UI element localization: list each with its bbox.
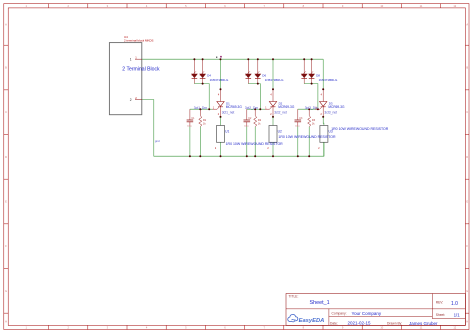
terminal pin 2	[135, 99, 142, 101]
svg-text:U1: U1	[225, 130, 229, 134]
node diode top 3.2	[311, 58, 313, 60]
terminal block U4	[109, 43, 141, 115]
svg-text:1: 1	[130, 58, 132, 62]
diode D4 half 2	[202, 59, 204, 74]
svg-text:1/1: 1/1	[454, 312, 461, 317]
SCR D3 MCR69-3G	[322, 89, 324, 101]
node SCR cathode ch1	[220, 116, 222, 118]
svg-text:Sheet:: Sheet:	[436, 313, 446, 317]
svg-text:2 terminal block MKDS: 2 terminal block MKDS	[124, 38, 153, 42]
svg-text:1R0 10W WIREWOUND RESISTOR: 1R0 10W WIREWOUND RESISTOR	[278, 135, 336, 139]
wire gate ch1	[190, 108, 209, 110]
wire top bus	[142, 58, 323, 60]
node diode top 1.2	[202, 58, 204, 60]
capacitor C1	[189, 109, 191, 120]
svg-text:Date:: Date:	[330, 321, 338, 325]
node diode top 2.2	[257, 58, 259, 60]
svg-text:gnd: gnd	[155, 139, 160, 143]
resistor R2	[254, 109, 256, 115]
node diode top 3.1	[303, 58, 305, 60]
svg-text:Sheet_1: Sheet_1	[310, 300, 330, 306]
wire top to SCR ch3	[322, 59, 324, 89]
wire gate ch2	[247, 108, 260, 110]
node join ch3	[311, 83, 313, 85]
node rail res ch3	[308, 155, 310, 157]
svg-text:3ct1_Drn: 3ct1_Drn	[194, 106, 208, 110]
wire U1 to rail	[220, 142, 222, 156]
node rail box ch1	[220, 155, 222, 157]
svg-text:2021-02-15: 2021-02-15	[348, 321, 372, 326]
svg-text:3ct3_net: 3ct3_net	[324, 110, 337, 114]
wire top to SCR ch2	[272, 59, 274, 89]
svg-text:H: H	[5, 319, 7, 323]
svg-text:TITLE:: TITLE:	[289, 294, 299, 298]
svg-text:D6: D6	[262, 73, 266, 77]
title block	[286, 294, 465, 326]
svg-text:Drawn By:: Drawn By:	[387, 321, 402, 325]
node diode top 2.1	[247, 58, 249, 60]
node gate junction ch2	[259, 108, 261, 110]
wire diode join ch3	[304, 84, 318, 110]
diode D6 half 2	[257, 59, 259, 74]
wire res to rail ch2	[254, 127, 256, 156]
wire res to rail ch3	[308, 127, 310, 156]
wirewound resistor U1	[217, 126, 225, 143]
svg-text:A: A	[466, 22, 468, 26]
svg-text:2: 2	[130, 98, 132, 102]
node resistor top ch2	[254, 108, 256, 110]
EasyEDA logo	[288, 314, 298, 321]
node join ch1	[202, 83, 204, 85]
wirewound resistor U2	[269, 126, 277, 143]
svg-text:REV:: REV:	[436, 300, 444, 304]
svg-text:MCR69-3G: MCR69-3G	[278, 105, 295, 109]
svg-text:H: H	[466, 319, 468, 323]
svg-text:Your Company: Your Company	[352, 311, 382, 316]
node rail cap ch1	[189, 155, 191, 157]
svg-text:D4: D4	[207, 73, 211, 77]
node rail res ch1	[199, 155, 201, 157]
diode D4 half 1	[193, 59, 195, 74]
SCR D2 MCR69-3G	[272, 89, 274, 101]
wire diode join ch1	[194, 84, 209, 110]
svg-text:D8: D8	[316, 73, 320, 77]
wire gate ch3	[298, 108, 318, 110]
terminal pin 1	[135, 58, 142, 60]
svg-text:E: E	[466, 200, 468, 204]
node rail res ch2	[254, 155, 256, 157]
node gate junction ch1	[208, 108, 210, 110]
node gate junction ch3	[317, 108, 319, 110]
wire pin2 to ground rail	[142, 100, 324, 157]
diode D8 half 1	[303, 59, 305, 74]
svg-text:B: B	[5, 66, 7, 70]
node SCR anode pin ch2	[272, 88, 274, 90]
svg-text:1.0: 1.0	[451, 301, 458, 307]
resistor R1	[199, 109, 201, 115]
svg-text:MCR69-3G: MCR69-3G	[226, 105, 243, 109]
svg-text:1R0 10W WIREWOUND RESISTOR: 1R0 10W WIREWOUND RESISTOR	[331, 127, 389, 131]
svg-text:1N5371BRLG: 1N5371BRLG	[319, 78, 338, 82]
capacitor C3	[297, 109, 299, 120]
svg-text:A: A	[5, 22, 7, 26]
svg-text:B: B	[466, 66, 468, 70]
node SCR anode pin ch3	[322, 88, 324, 90]
capacitor C2	[246, 109, 248, 120]
svg-text:D: D	[5, 155, 7, 159]
svg-text:1N5371BRLG: 1N5371BRLG	[265, 78, 284, 82]
node SCR cathode ch3	[322, 116, 324, 118]
wirewound resistor U3	[320, 126, 328, 143]
diode D6 half 1	[247, 59, 249, 74]
svg-text:3ct2_net: 3ct2_net	[274, 110, 287, 114]
svg-text:G: G	[466, 289, 468, 293]
stray pin marks ch1	[216, 57, 217, 58]
SCR D1 MCR69-3G	[220, 89, 222, 101]
node join ch2	[257, 83, 259, 85]
wire cap to rail ch3	[297, 127, 299, 157]
svg-text:Company:: Company:	[332, 312, 347, 316]
wire cap to rail ch1	[189, 127, 191, 157]
node SCR top bus ch2	[272, 58, 274, 60]
node rail box ch2	[272, 155, 274, 157]
wire top to SCR ch1	[220, 59, 222, 89]
wire SCR to resistor U3 ch3	[322, 117, 324, 121]
svg-text:G: G	[5, 289, 7, 293]
svg-text:1R0 10W WIREWOUND RESISTOR: 1R0 10W WIREWOUND RESISTOR	[226, 142, 284, 146]
node SCR cathode ch2	[272, 116, 274, 118]
node resistor top ch1	[199, 108, 201, 110]
diode D8 half 2	[311, 59, 313, 74]
node SCR anode pin ch1	[220, 88, 222, 90]
wire res to rail ch1	[199, 127, 201, 156]
wire cap to rail ch2	[246, 127, 248, 157]
wire SCR to resistor U2 ch2	[272, 117, 274, 121]
wire diode join ch2	[248, 84, 260, 110]
resistor R3	[308, 109, 310, 115]
svg-text:U2: U2	[278, 130, 282, 134]
node rail cap ch3	[297, 155, 299, 157]
svg-text:1N5371BRLG: 1N5371BRLG	[210, 78, 229, 82]
node resistor top ch3	[308, 108, 310, 110]
svg-text:3ct1_net: 3ct1_net	[222, 110, 235, 114]
svg-text:E: E	[5, 200, 7, 204]
wire U3 to rail	[323, 142, 325, 156]
node SCR top bus ch1	[220, 58, 222, 60]
svg-text:C: C	[466, 110, 468, 114]
svg-text:D: D	[466, 155, 468, 159]
node diode top 1.1	[193, 58, 195, 60]
svg-text:James Gruber: James Gruber	[409, 321, 438, 326]
svg-text:2 Terminal Block: 2 Terminal Block	[122, 66, 160, 72]
svg-text:MCR69-3G: MCR69-3G	[328, 105, 345, 109]
wire SCR to resistor U1 ch1	[220, 117, 222, 121]
wire U2 to rail	[272, 142, 274, 156]
svg-text:EasyEDA: EasyEDA	[299, 318, 325, 324]
svg-text:C: C	[5, 110, 7, 114]
node rail cap ch2	[246, 155, 248, 157]
